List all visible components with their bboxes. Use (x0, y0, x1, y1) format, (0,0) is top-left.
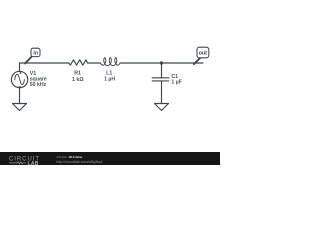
svg-text:in: in (33, 50, 38, 56)
out flag box (197, 47, 209, 58)
svg-text:1 kΩ: 1 kΩ (72, 77, 84, 83)
footer bar (0, 152, 220, 165)
voltage source V1 circle (11, 71, 27, 87)
V1 minus sign (18, 85, 20, 87)
svg-text:50 kHz: 50 kHz (30, 82, 47, 88)
wire: V1 top to main rail corner (19, 63, 21, 71)
wire: V1 bottom to ground (19, 88, 21, 104)
CircuitLab logo: resistor glyph (9, 162, 26, 164)
svg-text:out: out (199, 50, 207, 56)
svg-text:1 µH: 1 µH (104, 77, 115, 83)
svg-text:LAB: LAB (28, 161, 39, 165)
svg-text:L1: L1 (106, 70, 112, 76)
inductor L1 coil (100, 58, 120, 66)
svg-text:http://circuitlab.com/c6tg3tq4: http://circuitlab.com/c6tg3tq4 (56, 160, 103, 164)
in flag pin (25, 57, 31, 64)
ground (V1) (13, 104, 27, 111)
resistor R1 zigzag (69, 60, 88, 65)
wire: main rail from V1 corner to resistor R1 (20, 62, 69, 64)
ground (C1) (155, 104, 169, 111)
capacitor C1 plates (152, 78, 169, 81)
junction node (160, 61, 163, 64)
wire: C1 to ground (161, 81, 163, 104)
V1 sine glyph (15, 74, 25, 84)
in flag box (31, 48, 40, 56)
svg-text:R1: R1 (74, 71, 81, 77)
V1 plus sign (20, 72, 22, 74)
svg-text:JohnQCo / RLC demo: JohnQCo / RLC demo (56, 155, 82, 159)
wire: junction down to C1 (161, 63, 163, 78)
out flag pin (194, 57, 201, 64)
wire: R1 to L1 (88, 62, 101, 64)
svg-text:1 µF: 1 µF (171, 79, 181, 85)
wire: L1 to out (120, 62, 203, 64)
